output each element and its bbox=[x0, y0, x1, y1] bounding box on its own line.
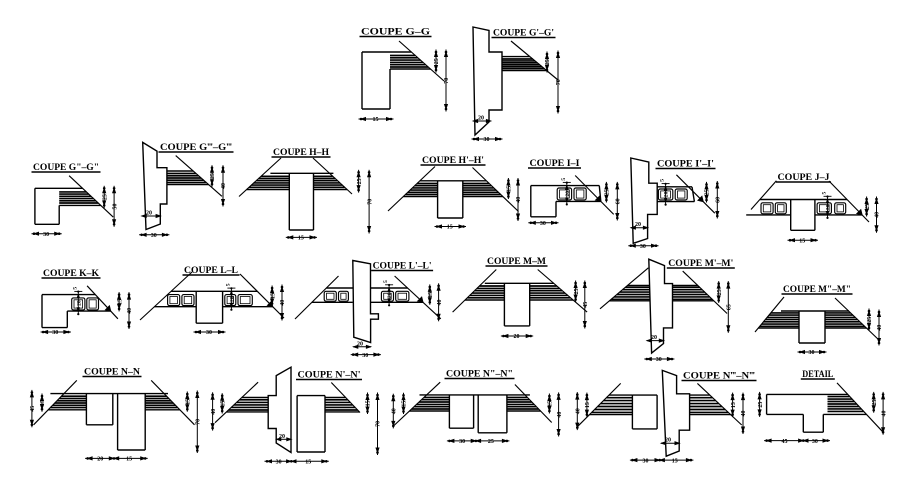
hollow block bbox=[658, 189, 672, 200]
rib 2 outline bbox=[477, 395, 479, 433]
dimension 30 horizontal bbox=[32, 233, 62, 235]
dimension 70 vertical bbox=[196, 391, 198, 454]
section-cut arrow bbox=[106, 306, 111, 311]
svg-text:40: 40 bbox=[516, 197, 522, 203]
section leader line bbox=[755, 297, 784, 332]
block dimension bbox=[665, 184, 667, 205]
hatching bbox=[479, 285, 504, 287]
svg-text:5: 5 bbox=[822, 192, 828, 195]
svg-text:25: 25 bbox=[865, 204, 871, 210]
block dimension bbox=[388, 285, 390, 305]
svg-text:40: 40 bbox=[280, 300, 286, 306]
svg-text:15: 15 bbox=[428, 292, 434, 298]
svg-text:30: 30 bbox=[43, 232, 49, 238]
dimension 20 bbox=[473, 120, 491, 122]
hatching bbox=[690, 397, 713, 399]
section leader line bbox=[683, 271, 727, 313]
dimension 40 vertical bbox=[876, 197, 878, 233]
section leader line bbox=[176, 156, 222, 197]
svg-text:15: 15 bbox=[373, 117, 379, 123]
hollow block bbox=[225, 295, 236, 306]
dimension 25 vertical bbox=[546, 52, 548, 73]
svg-text:30: 30 bbox=[52, 330, 58, 336]
dimension 15 vertical bbox=[507, 178, 509, 199]
svg-text:15: 15 bbox=[117, 299, 123, 305]
svg-text:25: 25 bbox=[758, 402, 764, 408]
svg-text:15: 15 bbox=[298, 236, 304, 242]
section leader line bbox=[87, 286, 118, 319]
dimension 25 vertical bbox=[868, 309, 870, 331]
section outline bbox=[42, 294, 95, 296]
wall outline bbox=[143, 142, 167, 229]
svg-text:40: 40 bbox=[557, 412, 563, 418]
dimension 25 vertical bbox=[103, 186, 105, 208]
svg-text:15: 15 bbox=[220, 401, 226, 407]
svg-text:20: 20 bbox=[357, 341, 363, 347]
svg-text:30: 30 bbox=[640, 244, 646, 250]
svg-text:15: 15 bbox=[672, 458, 678, 464]
wall outline bbox=[631, 158, 657, 243]
svg-text:25: 25 bbox=[357, 178, 363, 184]
svg-text:40: 40 bbox=[211, 409, 217, 415]
svg-text:COUPE K–K: COUPE K–K bbox=[43, 268, 99, 278]
hollow block bbox=[324, 291, 336, 301]
hollow block bbox=[675, 189, 687, 200]
hollow block bbox=[817, 203, 831, 214]
block dimension bbox=[77, 292, 79, 315]
dimension 20/15 horizontal bbox=[85, 457, 148, 459]
svg-text:5: 5 bbox=[561, 178, 567, 181]
right slab bbox=[673, 285, 698, 287]
svg-text:25: 25 bbox=[434, 58, 440, 64]
dimension 40 vertical bbox=[517, 178, 519, 221]
wall outline bbox=[662, 370, 689, 456]
dimension 40 vertical bbox=[878, 310, 880, 346]
dimension 30 horizontal bbox=[644, 358, 674, 360]
dimension 15 vertical bbox=[186, 392, 188, 412]
dimension 15 vertical bbox=[118, 292, 120, 311]
right slab bbox=[690, 394, 710, 396]
section leader line bbox=[69, 176, 113, 217]
hatching bbox=[325, 399, 348, 401]
svg-text:40: 40 bbox=[437, 300, 443, 306]
section leader line bbox=[313, 158, 352, 194]
dimension 40 vertical bbox=[882, 392, 884, 435]
section leader line bbox=[34, 380, 77, 424]
left slab bbox=[242, 397, 268, 399]
hatching bbox=[167, 173, 196, 175]
rib 1 outline bbox=[448, 395, 450, 428]
svg-text:30: 30 bbox=[206, 330, 212, 336]
dimension 25 vertical bbox=[211, 165, 213, 187]
svg-text:30: 30 bbox=[276, 460, 282, 466]
svg-text:25: 25 bbox=[867, 317, 873, 323]
section leader line bbox=[676, 175, 714, 213]
section leader line bbox=[511, 41, 558, 80]
svg-text:15: 15 bbox=[731, 402, 737, 408]
svg-text:25: 25 bbox=[705, 189, 711, 195]
dimension 15 vertical bbox=[429, 284, 431, 304]
svg-text:70: 70 bbox=[196, 419, 202, 425]
dimension 20 bbox=[276, 438, 291, 440]
block dimension bbox=[230, 288, 232, 309]
svg-text:15: 15 bbox=[548, 401, 554, 407]
svg-text:70: 70 bbox=[444, 78, 450, 84]
hatching bbox=[463, 183, 489, 185]
rib outline bbox=[631, 395, 633, 429]
section-cut arrow bbox=[698, 196, 703, 201]
section leader line bbox=[240, 274, 284, 318]
rib outline bbox=[790, 200, 792, 231]
dimension 70 vertical bbox=[368, 170, 370, 234]
hollow block bbox=[72, 298, 85, 310]
section leader line bbox=[295, 276, 339, 319]
hatching bbox=[314, 175, 333, 177]
hollow block bbox=[396, 291, 409, 301]
hollow block bbox=[168, 295, 180, 306]
dimension 15 vertical bbox=[221, 393, 223, 413]
dimension 30 horizontal bbox=[472, 138, 503, 140]
section outline bbox=[420, 180, 487, 182]
wall outline bbox=[268, 367, 291, 452]
svg-text:COUPE N"–N": COUPE N"–N" bbox=[446, 369, 513, 379]
svg-text:20: 20 bbox=[565, 191, 571, 197]
svg-text:COUPE N‴–N‴: COUPE N‴–N‴ bbox=[683, 371, 755, 381]
svg-text:25: 25 bbox=[488, 439, 494, 445]
section outline bbox=[531, 185, 600, 187]
svg-text:25: 25 bbox=[605, 189, 611, 195]
dimension 45/30 horizontal bbox=[764, 440, 830, 442]
svg-text:45: 45 bbox=[782, 439, 788, 445]
right slab bbox=[371, 287, 408, 289]
svg-text:COUPE H–H: COUPE H–H bbox=[273, 147, 329, 157]
hatching bbox=[417, 183, 438, 185]
section leader line bbox=[453, 270, 497, 313]
dimension 40 vertical bbox=[281, 285, 283, 321]
section leader line bbox=[140, 272, 192, 320]
section leader line bbox=[515, 385, 552, 423]
svg-text:5: 5 bbox=[660, 179, 666, 182]
svg-text:15: 15 bbox=[507, 186, 513, 192]
svg-text:25: 25 bbox=[102, 194, 108, 200]
section outline bbox=[50, 393, 168, 395]
section leader line bbox=[575, 176, 614, 215]
section leader line bbox=[394, 382, 440, 425]
hatching bbox=[261, 175, 289, 177]
svg-text:COUPE L–L: COUPE L–L bbox=[184, 265, 238, 275]
dimension 45 vertical bbox=[31, 390, 33, 427]
dimension 25 vertical bbox=[706, 182, 708, 203]
wall outline bbox=[649, 259, 673, 353]
dimension 15 vertical bbox=[271, 286, 273, 307]
rib outline bbox=[503, 283, 505, 326]
svg-text:20: 20 bbox=[229, 296, 235, 302]
hollow block bbox=[339, 291, 349, 301]
dimension 15 horizontal bbox=[286, 236, 317, 238]
section outline bbox=[781, 310, 849, 312]
section leader line bbox=[395, 276, 441, 319]
dimension 25 vertical bbox=[718, 281, 720, 303]
svg-text:40: 40 bbox=[741, 411, 747, 417]
block dimension bbox=[566, 183, 568, 205]
dimension 15 vertical bbox=[548, 394, 550, 414]
svg-text:COUPE L'–L': COUPE L'–L' bbox=[373, 261, 432, 271]
dimension 25 vertical bbox=[759, 392, 761, 417]
svg-text:COUPE H'–H': COUPE H'–H' bbox=[422, 155, 484, 165]
wall outline bbox=[473, 27, 502, 135]
svg-text:15: 15 bbox=[402, 401, 408, 407]
svg-text:COUPE G'–G': COUPE G'–G' bbox=[493, 28, 554, 38]
dimension 20 bbox=[647, 340, 664, 342]
dimension 40 vertical bbox=[438, 283, 440, 321]
hatching bbox=[606, 397, 632, 399]
rib outline bbox=[798, 311, 800, 343]
dimension 15 vertical bbox=[586, 393, 588, 418]
rib outline bbox=[288, 173, 290, 230]
svg-text:30: 30 bbox=[540, 221, 546, 227]
hatching bbox=[59, 191, 86, 193]
section-cut arrow bbox=[857, 210, 862, 215]
hatching bbox=[424, 396, 449, 398]
svg-text:20: 20 bbox=[651, 335, 657, 341]
svg-text:30: 30 bbox=[362, 353, 368, 359]
svg-text:70: 70 bbox=[376, 421, 382, 427]
section outline bbox=[270, 172, 333, 174]
svg-text:45: 45 bbox=[30, 406, 36, 412]
section leader line bbox=[835, 298, 880, 341]
svg-text:DETAIL: DETAIL bbox=[802, 369, 833, 379]
dimension 70 vertical bbox=[557, 51, 559, 114]
svg-text:40: 40 bbox=[221, 183, 227, 189]
dimension 30 horizontal bbox=[628, 245, 658, 247]
svg-text:50: 50 bbox=[112, 204, 118, 210]
dimension 15 horizontal bbox=[435, 226, 467, 228]
svg-text:COUPE I'–I': COUPE I'–I' bbox=[657, 159, 714, 169]
section outline bbox=[767, 393, 848, 395]
svg-text:30: 30 bbox=[643, 458, 649, 464]
section leader line bbox=[829, 181, 869, 222]
svg-text:COUPE G‴–G‴: COUPE G‴–G‴ bbox=[160, 142, 232, 152]
dimension 15 vertical bbox=[403, 393, 405, 414]
svg-text:30: 30 bbox=[151, 233, 157, 239]
section outline bbox=[171, 290, 257, 292]
dimension 30 horizontal bbox=[528, 222, 558, 224]
hollow block bbox=[87, 298, 99, 310]
left slab bbox=[326, 287, 352, 289]
svg-text:20: 20 bbox=[514, 334, 520, 340]
svg-text:5: 5 bbox=[72, 287, 78, 290]
svg-text:30: 30 bbox=[484, 137, 490, 143]
svg-text:15: 15 bbox=[40, 400, 46, 406]
svg-text:20: 20 bbox=[664, 191, 670, 197]
svg-text:30: 30 bbox=[809, 350, 815, 356]
hatching bbox=[825, 312, 851, 314]
dimension 60 vertical bbox=[716, 181, 718, 219]
dimension 25 vertical bbox=[358, 170, 360, 193]
wall outline bbox=[353, 261, 379, 343]
svg-text:30: 30 bbox=[656, 357, 662, 363]
svg-text:COUPE M'–M': COUPE M'–M' bbox=[668, 258, 733, 268]
dimension 15 vertical bbox=[367, 393, 369, 415]
section leader line bbox=[151, 380, 194, 424]
dimension 30 horizontal bbox=[41, 331, 71, 333]
section outline bbox=[420, 394, 530, 396]
svg-text:65: 65 bbox=[727, 304, 733, 310]
hatching bbox=[502, 58, 533, 60]
section leader line bbox=[600, 268, 648, 309]
svg-text:30: 30 bbox=[812, 439, 818, 445]
section leader line bbox=[473, 168, 519, 212]
dimension 30/15 horizontal bbox=[630, 459, 694, 461]
hollow block bbox=[761, 203, 773, 214]
svg-text:15: 15 bbox=[126, 457, 132, 463]
dimension 25 vertical bbox=[575, 281, 577, 303]
rib outline bbox=[296, 396, 298, 452]
dimension 25 vertical bbox=[605, 182, 607, 203]
section outline bbox=[35, 187, 83, 189]
svg-text:45: 45 bbox=[583, 302, 589, 308]
section leader line bbox=[837, 383, 883, 432]
svg-text:20: 20 bbox=[478, 116, 484, 122]
svg-text:20: 20 bbox=[635, 222, 641, 228]
hatching bbox=[673, 286, 700, 288]
svg-text:15: 15 bbox=[447, 225, 453, 231]
svg-text:20: 20 bbox=[97, 457, 103, 463]
svg-text:30: 30 bbox=[459, 439, 465, 445]
svg-text:20: 20 bbox=[387, 292, 393, 298]
dimension 20 bbox=[353, 346, 371, 348]
block dimension bbox=[827, 197, 829, 218]
dimension 25 vertical bbox=[873, 392, 875, 413]
svg-text:25: 25 bbox=[872, 400, 878, 406]
svg-text:15: 15 bbox=[186, 399, 192, 405]
dimension 40 vertical bbox=[392, 394, 394, 429]
svg-text:20: 20 bbox=[665, 438, 671, 444]
svg-text:20: 20 bbox=[146, 211, 152, 217]
svg-text:25: 25 bbox=[574, 288, 580, 294]
hatching bbox=[771, 312, 799, 314]
svg-text:40: 40 bbox=[576, 408, 582, 414]
svg-text:25: 25 bbox=[717, 289, 723, 295]
svg-text:15: 15 bbox=[366, 400, 372, 406]
hatching bbox=[530, 285, 557, 287]
svg-text:COUPE J–J: COUPE J–J bbox=[778, 172, 831, 182]
svg-text:20: 20 bbox=[826, 204, 832, 210]
svg-text:COUPE M–M: COUPE M–M bbox=[487, 256, 547, 266]
hollow block bbox=[182, 295, 194, 306]
hatching bbox=[390, 55, 415, 57]
dimension 40 vertical bbox=[742, 393, 744, 434]
hollow block bbox=[381, 291, 393, 301]
hollow block bbox=[574, 188, 586, 200]
dimension 15 vertical bbox=[732, 393, 734, 418]
svg-text:25: 25 bbox=[545, 59, 551, 65]
svg-text:5: 5 bbox=[383, 280, 389, 283]
dimension 65 vertical bbox=[727, 281, 729, 333]
svg-text:COUPE N–N: COUPE N–N bbox=[84, 367, 141, 377]
svg-text:15: 15 bbox=[270, 293, 276, 299]
dimension 50 vertical bbox=[113, 186, 115, 227]
svg-text:15: 15 bbox=[305, 460, 311, 466]
svg-text:20: 20 bbox=[279, 434, 285, 440]
hollow block bbox=[557, 188, 571, 200]
svg-text:40: 40 bbox=[392, 408, 398, 414]
svg-text:70: 70 bbox=[367, 199, 373, 205]
left slab bbox=[628, 285, 650, 287]
dimension 40 vertical bbox=[128, 292, 130, 329]
dimension 40 vertical bbox=[212, 392, 214, 430]
section leader line bbox=[697, 383, 741, 425]
svg-text:60: 60 bbox=[716, 197, 722, 203]
dimension 25 vertical bbox=[866, 197, 868, 217]
section outline bbox=[362, 51, 411, 53]
rib outline bbox=[195, 291, 197, 323]
svg-text:60: 60 bbox=[616, 198, 622, 204]
rib 2 outline bbox=[117, 394, 119, 450]
dimension 15 horizontal bbox=[359, 118, 394, 120]
svg-text:20: 20 bbox=[76, 300, 82, 306]
dimension 25 vertical bbox=[435, 50, 437, 73]
dimension 20 bbox=[142, 215, 161, 217]
dimension 30 horizontal bbox=[194, 331, 226, 333]
dimension 20 bbox=[631, 227, 648, 229]
rib 1 outline bbox=[85, 394, 87, 425]
dimension 30/25 horizontal bbox=[447, 440, 510, 442]
svg-text:40: 40 bbox=[875, 212, 881, 218]
dimension 30/15 horizontal bbox=[265, 460, 329, 462]
hatching bbox=[239, 399, 268, 401]
svg-text:5: 5 bbox=[225, 283, 231, 286]
dimension 30 horizontal bbox=[798, 351, 827, 353]
dimension 60 vertical bbox=[616, 182, 618, 221]
svg-text:COUPE G–G: COUPE G–G bbox=[361, 27, 430, 37]
dimension 40 vertical bbox=[222, 165, 224, 206]
hatching bbox=[61, 395, 86, 397]
svg-text:COUPE G"–G": COUPE G"–G" bbox=[33, 162, 99, 172]
svg-text:15: 15 bbox=[799, 238, 805, 244]
svg-text:40: 40 bbox=[127, 308, 133, 314]
right slab bbox=[325, 397, 346, 399]
section leader line bbox=[331, 383, 360, 413]
dimension 40 vertical bbox=[558, 392, 560, 436]
dimension 20 bbox=[661, 442, 680, 444]
section-cut arrow bbox=[268, 302, 273, 307]
hatching bbox=[145, 395, 166, 397]
section-cut arrow bbox=[418, 297, 423, 302]
section leader line bbox=[538, 270, 587, 313]
rib outline bbox=[437, 181, 439, 218]
dimension 45 vertical bbox=[584, 281, 586, 329]
svg-text:40: 40 bbox=[881, 411, 887, 417]
section leader line bbox=[239, 158, 281, 197]
hollow block bbox=[775, 203, 786, 214]
svg-text:COUPE I–I: COUPE I–I bbox=[530, 158, 581, 168]
section leader line bbox=[388, 167, 435, 212]
svg-text:70: 70 bbox=[556, 79, 562, 85]
dimension 15 horizontal bbox=[788, 239, 819, 241]
section leader line bbox=[578, 383, 621, 426]
section leader line bbox=[215, 382, 258, 423]
dimension 70 vertical bbox=[445, 50, 447, 112]
hatching bbox=[625, 286, 650, 288]
hollow block bbox=[238, 295, 252, 306]
hollow block bbox=[835, 203, 846, 214]
svg-text:25: 25 bbox=[210, 173, 216, 179]
svg-text:COUPE M"–M": COUPE M"–M" bbox=[783, 284, 851, 294]
dimension 40 vertical bbox=[576, 392, 578, 430]
dimension 70 vertical bbox=[377, 393, 379, 456]
section leader line bbox=[751, 181, 776, 210]
